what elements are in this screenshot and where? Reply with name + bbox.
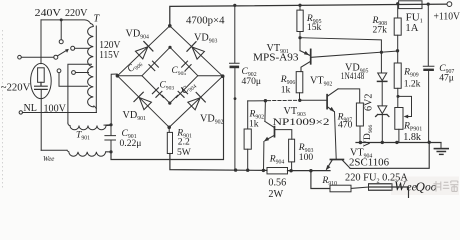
svg-text:470μ: 470μ [242, 76, 262, 87]
ground symbol [434, 143, 448, 155]
terminal ~220V live [18, 55, 22, 59]
svg-text:+110V: +110V [434, 11, 460, 23]
node N1 line solid right [300, 99, 327, 101]
wire lamp bottom lead [40, 89, 42, 150]
svg-text:470: 470 [338, 120, 353, 131]
lamp NL envelope [31, 63, 52, 98]
fuse FU1 [399, 1, 422, 9]
terminal NL neutral [19, 111, 22, 114]
fuse FU2 [369, 184, 393, 190]
wire R910 drop [311, 171, 330, 189]
node contact C3 [72, 71, 76, 75]
svg-text:MPS-A93: MPS-A93 [253, 53, 299, 64]
wire VT902 collector to R907 [338, 89, 360, 103]
choke T901 bottom winding [67, 150, 112, 156]
svg-text:NP1009×2: NP1009×2 [273, 117, 330, 128]
potentiometer RP901 [395, 95, 412, 142]
wire VT902 emitter to VT904 base [335, 112, 337, 159]
svg-text:2SC1106: 2SC1106 [349, 157, 389, 168]
diode VD901 bottom-left [134, 92, 151, 109]
zener VD906 6V2 [376, 106, 389, 142]
wire tap T1 to choke top [68, 64, 92, 123]
resistor R908 [397, 4, 399, 18]
node 240V contact [59, 40, 63, 44]
diode VD904 top-left [135, 41, 152, 58]
wire NL neutral to transformer bottom [23, 112, 97, 114]
transistor VT904 [326, 160, 350, 171]
node dots on negative rail [234, 168, 237, 171]
wire ground net line [356, 142, 441, 144]
svg-text:100V: 100V [44, 104, 67, 115]
svg-text:2W: 2W [268, 189, 283, 198]
transformer T tap line [95, 26, 97, 113]
svg-text:4700p×4: 4700p×4 [186, 15, 225, 26]
capacitor C903 plates [152, 88, 162, 98]
svg-text:1A: 1A [405, 23, 418, 34]
svg-text:NL: NL [24, 103, 37, 114]
transformer T winding [88, 24, 97, 109]
wire choke top to C901 [104, 124, 111, 126]
capacitor C901 [105, 125, 116, 152]
svg-text:240V: 240V [35, 8, 62, 19]
switch S1 wiper [54, 55, 58, 59]
svg-text:6V2: 6V2 [364, 94, 375, 111]
wire R905 node to VD905 [300, 38, 381, 73]
resistor R907 [356, 103, 363, 126]
node N1 line dashed [268, 99, 299, 101]
capacitor C906 plates [149, 61, 159, 71]
svg-text:0.22μ: 0.22μ [120, 138, 142, 149]
wire negative rail [170, 154, 267, 171]
wire lamp to choke bottom [41, 149, 67, 151]
capacitor C902 electrolytic [230, 5, 240, 63]
svg-text:5W: 5W [177, 147, 192, 158]
svg-text:~220V: ~220V [1, 82, 31, 93]
svg-text:2.2: 2.2 [178, 137, 190, 148]
scan edge artifact left [2, 30, 4, 188]
choke T901 top winding [68, 123, 112, 130]
watermark WeeQoo bottom right [1, 8, 460, 200]
diode bridge outer diamond [117, 26, 222, 128]
svg-text:1k: 1k [249, 118, 259, 129]
transistor VT901 [300, 38, 397, 72]
wire AC lower line to bridge right [111, 77, 224, 160]
wire VT904 collector line [350, 142, 429, 168]
wire lamp top lead [40, 20, 42, 64]
node N1 line solid left [248, 100, 266, 102]
resistor R902 [247, 101, 249, 129]
lamp NL inner plates [35, 82, 48, 89]
wire negative rail right of R904 [288, 170, 331, 172]
svg-text:27k: 27k [373, 25, 388, 36]
svg-text:100: 100 [299, 152, 314, 163]
wire live input to switch [21, 56, 54, 58]
resistor R901 [167, 132, 172, 153]
bridge inner diamond with caps [117, 46, 222, 105]
resistor R903 [289, 139, 295, 162]
diode VD902 bottom-right [188, 92, 205, 109]
svg-text:220V: 220V [65, 8, 88, 19]
capacitor C907 electrolytic [423, 3, 434, 143]
svg-text:0.56: 0.56 [268, 177, 286, 188]
wire bridge top riser to rail [170, 4, 450, 26]
svg-text:Q: Q [416, 179, 426, 194]
resistor R905 [299, 5, 301, 10]
transistor VT902 [327, 89, 338, 112]
wire FU2 out overdraw [369, 187, 409, 198]
node 240V contact riser [60, 20, 62, 40]
svg-text:1k: 1k [281, 84, 291, 95]
diode VD905 1N4148 [378, 73, 387, 106]
svg-text:1.2k: 1.2k [404, 78, 421, 89]
svg-text:Wee: Wee [43, 155, 54, 163]
svg-text:15k: 15k [307, 22, 322, 33]
wire R910 to FU2 [351, 187, 369, 188]
node 220V contact [71, 46, 75, 50]
diode VD903 top-right [187, 42, 204, 59]
node contact C2 [57, 69, 61, 73]
resistor R910 [330, 185, 351, 192]
svg-text:1.8k: 1.8k [403, 132, 422, 143]
wire 220V contact to winding [75, 47, 90, 49]
wire contact C3 to winding [76, 72, 89, 74]
wire bridge left riser [111, 74, 117, 125]
node bridge inner stubs [117, 75, 222, 77]
terminal +110V [447, 2, 452, 7]
transistor VT903 [264, 101, 292, 171]
lamp NL inner resistor [38, 68, 45, 83]
resistor R906 [296, 72, 303, 93]
resistor R909 [394, 63, 401, 88]
svg-text:47μ: 47μ [439, 73, 454, 84]
node dot VD905 crossing base line [380, 51, 383, 54]
capacitor C905 plates [182, 61, 192, 71]
svg-text:115V: 115V [99, 50, 120, 61]
svg-text:1N4148: 1N4148 [341, 71, 365, 82]
wire contact C2 to winding [59, 73, 88, 87]
wire top-left mains rail [41, 20, 91, 24]
resistor R904 body [267, 168, 288, 174]
capacitor C904 plates [178, 88, 188, 98]
